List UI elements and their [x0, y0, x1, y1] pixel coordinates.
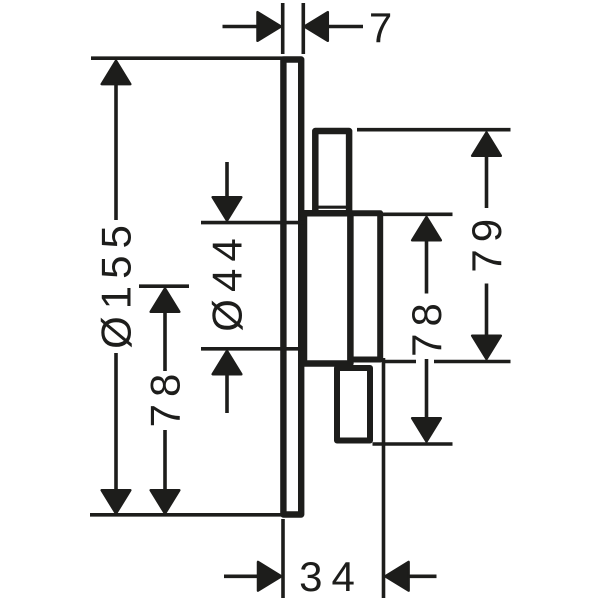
- dim 78 left: axis extension line: [139, 284, 189, 288]
- dim 79: bottom extension line right part: [434, 360, 511, 364]
- dim 34: right arrowhead (points left): [385, 562, 408, 591]
- dim 78 right: top arrowhead (points up): [412, 217, 441, 240]
- dim 78 left: bottom arrowhead (points down): [151, 490, 180, 513]
- dim 7: left arrowhead (points right): [258, 12, 281, 41]
- dim 78 right: bottom arrowhead (points down): [412, 418, 441, 441]
- dim 79: dim line lower segment: [485, 284, 489, 337]
- dim O155: dim line lower segment: [114, 353, 118, 490]
- dim 78 right: bottom extension line: [373, 442, 453, 446]
- dim 7: right arrowhead (points left): [305, 12, 328, 41]
- dim 34: right arrow tail: [408, 574, 436, 578]
- dim 34: left extension line: [281, 519, 285, 598]
- handle skirt rect: [350, 213, 380, 359]
- dim 79: bottom arrowhead (points down): [472, 336, 501, 359]
- dim 7: right arrow tail: [328, 25, 363, 29]
- dim 78 left: dim line lower segment: [163, 430, 167, 490]
- valve body rect: [304, 213, 350, 363]
- svg-text:7: 7: [369, 4, 399, 51]
- top handle rect: [315, 131, 349, 213]
- dim O44: lower arrow tail: [225, 374, 229, 413]
- dim O155: bottom extension line: [90, 513, 283, 517]
- svg-text:34: 34: [299, 553, 364, 600]
- dim 78 left: top arrowhead (points up): [151, 289, 180, 312]
- svg-text:78: 78: [142, 367, 189, 428]
- dim O44: upper arrowhead (points down): [213, 197, 242, 220]
- dim 34: right extension line: [382, 358, 386, 598]
- dim O44: top extension line: [201, 221, 304, 225]
- dim 78 right: top extension line: [381, 213, 453, 217]
- dim 79: dim line upper segment: [485, 156, 489, 209]
- dim O155: bottom arrowhead (points down): [102, 490, 131, 513]
- dim 79: top arrowhead (points up): [472, 133, 501, 156]
- dim 78 right: dim line upper segment: [425, 240, 429, 294]
- lower lever rect: [337, 368, 370, 441]
- svg-text:79: 79: [463, 212, 510, 273]
- dim O155: top extension line: [91, 56, 283, 60]
- dim 78 left: dim line upper segment: [163, 312, 167, 371]
- dim O44: lower arrowhead (points up): [213, 351, 242, 374]
- dim 7: right extension line: [301, 3, 305, 54]
- dim 78 right: dim line lower segment: [425, 359, 429, 419]
- dim O44: bottom extension line: [201, 347, 304, 351]
- dim O155: top arrowhead (points up): [102, 61, 131, 84]
- dim 34: left arrow tail: [224, 574, 258, 578]
- svg-text:Ø44: Ø44: [204, 231, 251, 331]
- svg-text:78: 78: [403, 296, 450, 357]
- top handle inner line: [316, 206, 348, 209]
- dim O155: dim line upper segment: [114, 84, 118, 220]
- dim O44: upper arrow tail: [225, 162, 229, 198]
- dim 79: top extension line: [357, 128, 511, 132]
- escutcheon plate (side view): [283, 60, 301, 515]
- dim 7: left arrow tail: [223, 25, 259, 29]
- dim 7: left extension line: [281, 3, 285, 54]
- dim 34: left arrowhead (points right): [258, 562, 281, 591]
- dim 79: bottom extension line left part: [384, 360, 416, 364]
- svg-text:Ø155: Ø155: [93, 218, 140, 349]
